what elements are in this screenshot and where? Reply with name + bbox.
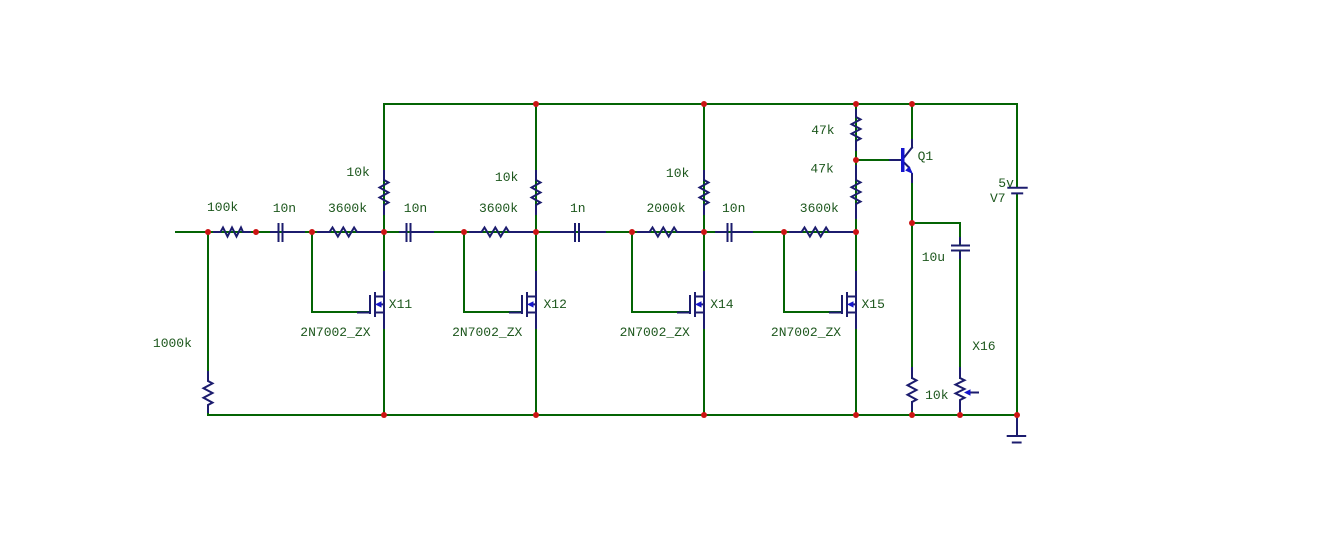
potentiometer X16 wiper arrow xyxy=(970,392,978,394)
node dot gate1 x312 xyxy=(309,229,315,235)
svg-text:2000k: 2000k xyxy=(647,201,686,216)
svg-text:3600k: 3600k xyxy=(800,201,839,216)
mosfet X15 xyxy=(830,272,856,328)
node dot main line x208 xyxy=(205,229,211,235)
node dot main line x384 xyxy=(381,229,387,235)
capacitor 10n stage1-2 xyxy=(400,224,433,241)
wire stage1 column xyxy=(383,104,385,415)
mosfet X14 arrow xyxy=(695,301,702,307)
battery V7 xyxy=(1008,188,1026,194)
svg-text:1000k: 1000k xyxy=(153,336,192,351)
wire main line segment E-F xyxy=(464,231,536,233)
svg-text:X11: X11 xyxy=(389,297,413,312)
wire battery column xyxy=(1016,104,1018,415)
mosfet X15 arrow xyxy=(847,301,854,307)
svg-text:X12: X12 xyxy=(544,297,567,312)
wire left column with 1000k xyxy=(207,232,209,415)
node dot main line x256 xyxy=(253,229,259,235)
svg-text:10u: 10u xyxy=(922,250,945,265)
wire main line segment F-G xyxy=(536,231,632,233)
svg-text:1n: 1n xyxy=(570,201,586,216)
mosfet X14 xyxy=(678,272,704,328)
node dot bottom rail x856 xyxy=(853,412,859,418)
capacitor 1n stage2-3 xyxy=(551,224,605,241)
ground symbol xyxy=(1008,417,1025,443)
node dot base node xyxy=(853,157,859,163)
svg-text:10k: 10k xyxy=(495,170,519,185)
potentiometer X16 arrow head xyxy=(964,389,971,395)
node dot bottom rail x1017 xyxy=(1014,412,1020,418)
svg-text:3600k: 3600k xyxy=(479,201,518,216)
resistor R 100k xyxy=(214,228,250,237)
wire emitter to cap column xyxy=(912,223,960,415)
svg-text:2N7002_ZX: 2N7002_ZX xyxy=(300,325,370,340)
svg-text:Q1: Q1 xyxy=(918,149,934,164)
wire stage3 column xyxy=(703,104,705,415)
resistor R 10k stage2 vertical xyxy=(532,171,541,214)
node dot top rail x536 xyxy=(533,101,539,107)
node dot bottom rail x960 xyxy=(957,412,963,418)
svg-text:2N7002_ZX: 2N7002_ZX xyxy=(771,325,841,340)
node dot bottom rail x912 xyxy=(909,412,915,418)
wire stage2 column xyxy=(535,104,537,415)
resistor R 3600k stage4 xyxy=(790,228,854,237)
node dot top rail x856 xyxy=(853,101,859,107)
wire gate loop stage1 xyxy=(312,232,368,312)
wire Q1 collector-emitter column xyxy=(911,104,913,415)
mosfet X12 arrow xyxy=(527,301,534,307)
node dot bottom rail x704 xyxy=(701,412,707,418)
wire main line segment I-J xyxy=(784,231,856,233)
wire main line segment C-D xyxy=(312,231,384,233)
wire stage4 column xyxy=(855,104,857,415)
transistor Q1 base bar xyxy=(901,148,905,172)
capacitor 10n input xyxy=(271,224,304,241)
transistor Q1 leads xyxy=(890,140,912,182)
capacitor 10n stage3-4 xyxy=(716,224,752,241)
potentiometer X16 body xyxy=(956,368,965,412)
resistor R 47k lower xyxy=(852,166,861,218)
node dot top rail x912 xyxy=(909,101,915,107)
node dot gate4 x784 xyxy=(781,229,787,235)
svg-text:5v: 5v xyxy=(998,176,1014,191)
resistor R 47k upper xyxy=(852,110,861,150)
wire gate loop stage4 xyxy=(784,232,840,312)
wire top rail xyxy=(384,103,1017,105)
svg-text:X15: X15 xyxy=(862,297,885,312)
resistor R 2000k stage3 xyxy=(638,228,702,237)
node dot bottom rail x384 xyxy=(381,412,387,418)
node dot bottom rail x536 xyxy=(533,412,539,418)
resistor R 3600k stage2 xyxy=(470,228,534,237)
node dot emitter node xyxy=(909,220,915,226)
resistor R 10k stage3 vertical xyxy=(700,171,709,214)
svg-text:2N7002_ZX: 2N7002_ZX xyxy=(452,325,522,340)
svg-text:V7: V7 xyxy=(990,191,1006,206)
wire input stub xyxy=(176,231,208,233)
svg-text:100k: 100k xyxy=(207,200,238,215)
resistor R 10k stage1 vertical xyxy=(380,171,389,214)
capacitor 10u xyxy=(952,238,969,258)
wire main line segment A-B xyxy=(208,231,256,233)
resistor R 1000k vertical xyxy=(204,372,213,412)
svg-text:47k: 47k xyxy=(811,123,835,138)
svg-text:X16: X16 xyxy=(972,339,995,354)
node dot gate3 x632 xyxy=(629,229,635,235)
mosfet X11 arrow xyxy=(375,301,382,307)
wire gate loop stage3 xyxy=(632,232,688,312)
svg-text:X14: X14 xyxy=(710,297,734,312)
svg-text:10n: 10n xyxy=(722,201,745,216)
svg-text:10k: 10k xyxy=(666,166,690,181)
wire Q1 base xyxy=(856,159,895,161)
node dot main line x536 xyxy=(533,229,539,235)
svg-text:47k: 47k xyxy=(810,162,834,177)
mosfet X11 xyxy=(358,272,384,328)
wire main line segment H-I xyxy=(704,231,784,233)
svg-text:3600k: 3600k xyxy=(328,201,367,216)
svg-text:10n: 10n xyxy=(404,201,427,216)
wire gate loop stage2 xyxy=(464,232,520,312)
mosfet X12 xyxy=(510,272,536,328)
svg-text:10k: 10k xyxy=(925,388,949,403)
svg-text:10n: 10n xyxy=(273,201,296,216)
node dot main line x704 xyxy=(701,229,707,235)
transistor Q1 emitter arrow xyxy=(905,166,913,174)
wire main line segment D-E xyxy=(384,231,464,233)
node dot top rail x704 xyxy=(701,101,707,107)
wire main line segment B-C xyxy=(256,231,312,233)
wire main line segment G-H xyxy=(632,231,704,233)
svg-text:10k: 10k xyxy=(346,165,370,180)
resistor R 10k bottom right xyxy=(908,368,917,410)
svg-text:2N7002_ZX: 2N7002_ZX xyxy=(620,325,690,340)
node dot gate2 x464 xyxy=(461,229,467,235)
resistor R 3600k stage1 xyxy=(318,228,382,237)
node dot main line x856 xyxy=(853,229,859,235)
wire bottom rail xyxy=(208,414,1017,416)
